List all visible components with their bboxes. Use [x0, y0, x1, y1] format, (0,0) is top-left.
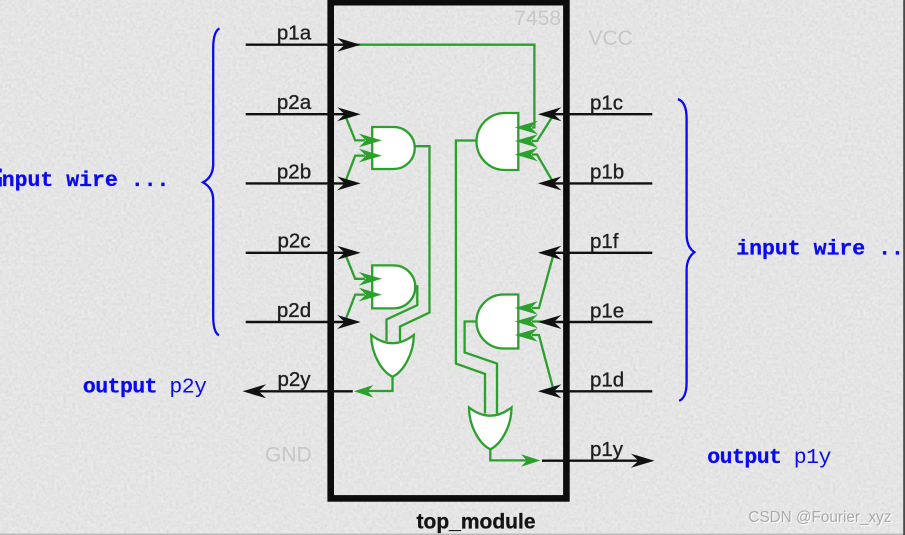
- svg-text:VCC: VCC: [589, 27, 633, 50]
- arrowhead p2y: [243, 384, 267, 398]
- svg-text:p1f: p1f: [590, 230, 619, 253]
- pin arrow U5 input B: [515, 315, 538, 329]
- arrowhead p2c: [337, 246, 361, 260]
- and-gate U5 (p1d&p1e&p1f): [477, 295, 519, 349]
- pin arrow p1y output green: [521, 454, 541, 467]
- svg-text:p1a: p1a: [277, 22, 312, 45]
- arrowhead p1b: [538, 176, 562, 190]
- pin arrow U4 input B: [515, 134, 538, 148]
- svg-text:output p1y: output p1y: [707, 446, 831, 470]
- wire pin p2y: [250, 390, 353, 392]
- wire pin p2c: [246, 252, 346, 254]
- svg-text:p2d: p2d: [277, 299, 311, 322]
- svg-text:p2a: p2a: [277, 91, 312, 114]
- arrowhead p1y: [631, 454, 655, 468]
- wire U2 output to U6 input B: [400, 146, 430, 341]
- svg-text:GND: GND: [265, 443, 312, 466]
- wire pin p1y: [542, 460, 648, 462]
- wire pin p1a: [246, 44, 346, 46]
- pin arrow U4 input A: [515, 121, 538, 135]
- wire pin p2a: [246, 113, 346, 115]
- svg-text:p1c: p1c: [590, 92, 623, 115]
- wire net p2a: [345, 114, 365, 140]
- arrowhead p1f: [538, 246, 562, 260]
- pin arrow U2 input A: [359, 134, 382, 148]
- arrowhead p1e: [538, 315, 562, 329]
- svg-text:p1b: p1b: [590, 161, 624, 184]
- chip U1 top_module body: [331, 2, 567, 498]
- wire U4 output to U7 input A: [456, 141, 485, 414]
- svg-text:input wire ...: input wire ...: [736, 237, 905, 261]
- wire pin p2b: [246, 182, 346, 184]
- and-gate U2 (p2a&p2b): [372, 127, 415, 169]
- wire pin p1e: [552, 321, 652, 323]
- wire pin p1f: [552, 252, 652, 254]
- wire net p1b: [532, 155, 554, 184]
- pin arrow U5 input A: [515, 301, 538, 315]
- wire pin p2d: [246, 321, 346, 323]
- wire pin p1b: [552, 182, 652, 184]
- wire net p1a: [345, 45, 535, 128]
- wire net p2b: [345, 156, 365, 184]
- text fragment clipped left edge: [0, 169, 2, 173]
- brace right input group: [678, 99, 695, 401]
- pin arrow U4 input C: [515, 148, 538, 162]
- svg-text:input wire ...: input wire ...: [0, 169, 169, 193]
- pin arrow U3 input A: [359, 272, 382, 286]
- svg-text:p2y: p2y: [277, 368, 311, 391]
- wire U5 output to U7 input B: [465, 322, 497, 414]
- pin arrow U3 input B: [359, 288, 382, 302]
- svg-text:p2b: p2b: [277, 160, 311, 183]
- svg-text:p1e: p1e: [590, 299, 624, 322]
- arrowhead p2b: [337, 176, 361, 190]
- arrowhead p1c: [538, 107, 562, 121]
- pin arrow p2y output green: [354, 385, 374, 398]
- svg-text:p1d: p1d: [590, 369, 624, 392]
- pin arrow U2 input B: [359, 149, 382, 163]
- wire pin p1c: [552, 113, 652, 115]
- wire net p1f: [532, 253, 554, 308]
- wire net p1c: [532, 114, 554, 141]
- and-gate U3 (p2c&p2d): [372, 265, 415, 308]
- wire U7 output to p1y: [490, 449, 527, 460]
- brace left input group: [203, 28, 220, 335]
- bottom edge line: [0, 534, 905, 535]
- wire pin p1d: [552, 390, 652, 392]
- wire net p1e: [532, 320, 554, 322]
- wire net p2c: [345, 253, 365, 279]
- svg-text:p2c: p2c: [277, 230, 310, 253]
- pin arrow U5 input C: [515, 328, 538, 342]
- wire U3 output to U6 input A: [387, 286, 418, 341]
- svg-text:top_module: top_module: [417, 511, 536, 534]
- wire U6 output to p2y: [368, 377, 393, 391]
- arrowhead p2a: [337, 107, 361, 121]
- or-gate U7 (p1y): [469, 408, 512, 450]
- and-gate U4 (p1a&p1b&p1c): [477, 113, 519, 170]
- svg-text:p1y: p1y: [590, 438, 624, 461]
- arrowhead p2d: [337, 315, 361, 329]
- svg-text:output p2y: output p2y: [83, 376, 207, 400]
- wire net p1d: [532, 335, 554, 391]
- right edge line: [903, 0, 905, 535]
- svg-text:CSDN @Fourier_xyz: CSDN @Fourier_xyz: [748, 509, 891, 526]
- arrowhead p1d: [538, 384, 562, 398]
- svg-text:7458: 7458: [514, 7, 561, 30]
- wire net p2d: [345, 295, 365, 322]
- or-gate U6 (p2y): [371, 335, 414, 377]
- arrowhead p1a: [337, 38, 361, 52]
